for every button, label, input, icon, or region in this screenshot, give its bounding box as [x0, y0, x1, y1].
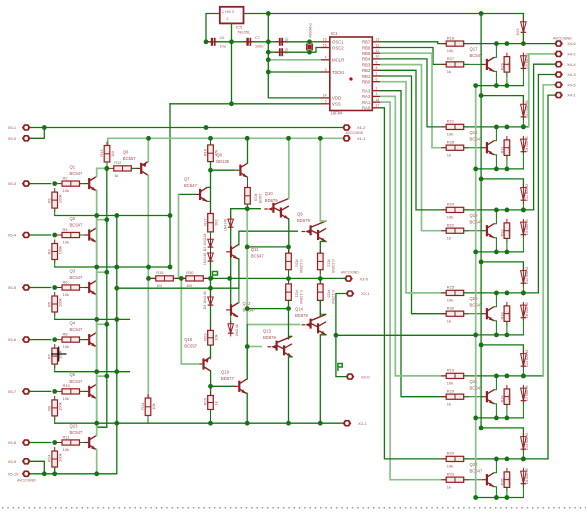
resistor R25 [441, 292, 469, 294]
connector X5-6 [22, 336, 31, 343]
svg-text:IC1: IC1 [331, 31, 338, 36]
svg-text:Q10: Q10 [265, 191, 274, 196]
wire R2 to Q1 base [80, 183, 85, 185]
svg-text:Q6: Q6 [123, 149, 129, 154]
pin 14 VDD of IC1 [321, 97, 330, 99]
pin 8 RB2 of IC1 [372, 69, 381, 71]
wire Q7 emitter [207, 200, 210, 202]
svg-text:4: 4 [325, 56, 327, 60]
wire OSC2 row [268, 51, 309, 53]
svg-text:X2-1: X2-1 [361, 291, 370, 296]
wire R24 to bus [54, 467, 56, 474]
transistor Q3 BC547 [88, 282, 90, 293]
junction R19 bottom / Q10 base row [245, 206, 250, 211]
wire rail cell Q22 [464, 458, 549, 460]
wire to Q13 base row [246, 325, 248, 347]
wire divider/reference row [148, 277, 344, 279]
svg-text:Q23: Q23 [70, 423, 79, 428]
wire X2 connectors tie [336, 294, 346, 377]
svg-text:BC557: BC557 [184, 344, 197, 349]
svg-text:D8 BAT43: D8 BAT43 [525, 468, 529, 484]
junction AVCC bus x=288.5 [286, 136, 291, 141]
junction X5-9 tie [42, 471, 47, 476]
pin 16 OSC1 of IC1 [321, 41, 330, 43]
transistor Q14 BD679 [302, 324, 306, 326]
wire RB6 to R27 [381, 48, 447, 65]
wire R11 to Q23 base [80, 442, 85, 444]
wire D14 to next rail [522, 450, 524, 459]
svg-text:R25: R25 [326, 290, 331, 298]
capacitor C7 100n [244, 41, 248, 43]
svg-text:2k2: 2k2 [214, 218, 219, 225]
resistor R22 [441, 230, 469, 232]
svg-text:1k: 1k [114, 173, 118, 178]
svg-text:R24: R24 [447, 202, 455, 207]
capacitor C2 22p [276, 51, 280, 53]
svg-text:X2-0: X2-0 [361, 374, 370, 379]
svg-text:R15: R15 [156, 270, 164, 275]
connector X5-1 [22, 124, 31, 131]
junction bus/resistor [505, 333, 510, 338]
junction GND bus / bus chain [114, 421, 119, 426]
pin 9 RB3 of IC1 [372, 64, 381, 66]
junction VIN / C6 [204, 39, 209, 44]
junction rail/diode [521, 208, 526, 213]
junction diode/next rail [521, 457, 526, 462]
wire row 247 [247, 246, 288, 248]
pin 6 RB0 of IC1 [372, 81, 381, 83]
junction GND bus / Q13 emitter [286, 421, 291, 426]
junction post row / chain B [479, 177, 484, 182]
resistor R16 [210, 141, 212, 166]
junction bus/chain [473, 83, 478, 88]
junction +5V rail / right cell chain [479, 11, 484, 16]
svg-text:1 +5V 3: 1 +5V 3 [222, 10, 234, 14]
junction resonator top [307, 39, 312, 44]
resistor R30 [181, 277, 208, 279]
junction X5-3 node [52, 181, 57, 186]
junction divider row / chain [208, 276, 213, 281]
wire RB0 fan-out to right driver [381, 82, 447, 293]
svg-text:D12 BAT43: D12 BAT43 [525, 267, 529, 284]
svg-text:RB7: RB7 [362, 40, 371, 45]
svg-text:BC557: BC557 [123, 156, 136, 161]
wire R23 to Q18 [210, 345, 212, 357]
pin 1 RA2 of IC1 [372, 95, 381, 97]
wire +5V top rail [244, 13, 524, 15]
wire R26 to Q16 base [464, 147, 483, 149]
svg-text:1k: 1k [447, 152, 451, 157]
wire Q6 emitter up to AVCC bus [147, 138, 149, 161]
wire X5-5 to R6 [31, 287, 51, 289]
pin 2 RA3 of IC1 [372, 90, 381, 92]
wire D4 to R23 [210, 306, 212, 330]
svg-text:Q21: Q21 [470, 379, 479, 384]
wire Q1 emitter down [95, 191, 97, 216]
svg-text:RB1: RB1 [362, 74, 371, 79]
wire post row to D10 [481, 96, 523, 104]
resistor R11 [57, 442, 85, 444]
svg-text:AVCC/GND: AVCC/GND [553, 37, 572, 41]
wire D13 to next rail [522, 367, 524, 376]
svg-text:X5-5: X5-5 [8, 285, 17, 290]
svg-text:R14: R14 [140, 402, 145, 410]
junction row / Q10 rail [286, 276, 291, 281]
pin 4 MCLR of IC1 [321, 59, 330, 61]
junction rail/collector [494, 291, 499, 296]
svg-text:R17: R17 [202, 218, 207, 226]
svg-text:10k: 10k [447, 215, 453, 220]
diode D15 1N4148 [522, 19, 524, 36]
wire divider tap to Q18 base [181, 278, 198, 364]
wire R9 to bus [54, 416, 56, 423]
junction rail/resistor [505, 457, 510, 462]
transistor Q2 BC547 [88, 229, 90, 240]
junction bus/resistor [505, 167, 510, 172]
wire R27 to Q17 base [464, 63, 483, 65]
diode D5 BAT43 [522, 219, 524, 238]
wire bus cell X5-5 [55, 318, 130, 320]
resistor R19 [247, 184, 249, 209]
transistor Q22 BC547 [486, 474, 488, 485]
wire R35 to bus [506, 487, 508, 497]
resistor R27 [441, 63, 469, 65]
wire Q4 collector row [96, 324, 107, 332]
resistor R20 [288, 249, 290, 274]
svg-text:R2: R2 [63, 175, 69, 180]
resistor R18 [441, 43, 469, 45]
junction X5-4 node [52, 233, 57, 238]
wire Q17 collector up [494, 44, 496, 58]
connector X4-3 [554, 71, 563, 78]
wire D5 to Q11 [230, 228, 232, 246]
wire R22 to Q19 base [464, 230, 483, 232]
svg-text:X4-1: X4-1 [567, 93, 576, 98]
junction GND bus / Q19 emitter [245, 421, 250, 426]
wire Q3 collector row [96, 272, 107, 280]
svg-text:BC547: BC547 [70, 327, 83, 332]
svg-text:10k: 10k [63, 396, 69, 401]
wire Q23 emitter down [95, 450, 97, 475]
svg-text:RB3: RB3 [362, 62, 371, 67]
wire Q7 rail upper [207, 187, 210, 213]
junction collector chain top [104, 166, 109, 171]
svg-text:100k: 100k [507, 477, 511, 485]
wire Q21 collector up [494, 376, 496, 390]
wire AVCC light bus to X1-1 [108, 137, 342, 139]
svg-text:10k: 10k [63, 240, 69, 245]
svg-text:1k: 1k [447, 484, 451, 489]
capacitor C6 10u [208, 41, 212, 43]
wire R10 to Q5 base [80, 390, 85, 392]
wire R22 to row [319, 270, 321, 284]
svg-text:X5-1: X5-1 [8, 125, 17, 130]
junction bus/chain [473, 416, 478, 421]
wire Q12 to D6 [230, 316, 232, 323]
wire X5-0 to X5-1 tie [31, 128, 45, 139]
junction bus/chain [473, 333, 478, 338]
svg-text:X4-3: X4-3 [567, 72, 576, 77]
wire Q2 collector row [96, 220, 107, 228]
svg-text:78L05L: 78L05L [237, 30, 251, 35]
junction VIN vertical / X1-2 row [204, 125, 209, 130]
svg-text:10k: 10k [151, 403, 156, 409]
wire resonator to OSC1 pin [310, 41, 322, 43]
resistor R26 [441, 147, 469, 149]
wire X5-4 to R4 [31, 234, 51, 236]
junction bus/emitter [494, 83, 499, 88]
voltage regulator IC5 78L05 [220, 7, 244, 24]
wire link rail to X4-4 [534, 64, 555, 210]
junction Q6 vertical / divider row [146, 276, 151, 281]
wire MCLR net [268, 59, 321, 61]
svg-text:R30: R30 [186, 270, 194, 275]
resistor R33 100k [506, 302, 508, 326]
pin 3 T0CKI of IC1 [321, 71, 330, 73]
svg-text:BC547: BC547 [70, 171, 83, 176]
junction bus/chain [114, 317, 119, 322]
wire post row to D14 [481, 428, 523, 436]
wire link rail to X4-3 [538, 75, 554, 293]
svg-text:MCLR: MCLR [332, 58, 344, 63]
wire R19 to row [247, 204, 249, 209]
diode D10 BAT43 [522, 101, 524, 120]
wire bus cell X5-6 [55, 371, 130, 373]
junction bus/emitter [494, 416, 499, 421]
junction post row / chain B [479, 426, 484, 431]
junction post row / chain B [479, 260, 484, 265]
wire bus cell Q20 [476, 334, 524, 336]
wire GND vertical to left cell buses [169, 104, 171, 267]
svg-text:Q4: Q4 [70, 320, 76, 325]
svg-text:1M: 1M [110, 151, 115, 157]
wire R32 to bus [506, 238, 508, 252]
wire Q10 rail up to AVCC bus [288, 138, 290, 198]
junction R24 bottom [52, 471, 57, 476]
svg-text:10: 10 [376, 55, 380, 59]
svg-text:16F84: 16F84 [331, 111, 344, 116]
svg-text:6: 6 [376, 78, 378, 82]
wire link rail to X4-1 [548, 95, 554, 459]
wire RB1 fan-out to right driver [381, 76, 447, 314]
transistor Q19 BC547 [486, 225, 488, 236]
svg-text:RB4: RB4 [362, 57, 371, 62]
pin 13 RB7 of IC1 [372, 41, 381, 43]
junction GND vertical / bus X5-3 cell [168, 213, 173, 218]
svg-text:RB6: RB6 [362, 45, 371, 50]
svg-text:R24: R24 [47, 454, 52, 462]
transistor Q16 BC547 [486, 142, 488, 153]
svg-text:BD677: BD677 [221, 376, 234, 381]
junction X5-7 node [52, 389, 57, 394]
junction row / Q9 rail [318, 276, 323, 281]
resistor R21 [288, 280, 290, 305]
junction bus/resistor [505, 495, 510, 500]
svg-text:100k: 100k [58, 453, 63, 462]
wire Q9 rail up to AVCC bus [320, 138, 326, 221]
svg-text:RA0: RA0 [362, 106, 371, 111]
diode D6 BAT43 [522, 302, 524, 321]
wire Q9 emitter down [320, 242, 326, 254]
diode D11 BAT43 [522, 184, 524, 203]
svg-text:4000kHz: 4000kHz [309, 23, 313, 38]
resistor R1 [54, 188, 56, 212]
wire drive row 288 [117, 287, 239, 289]
junction rail/resistor [505, 291, 510, 296]
wire bus cell Q21 [476, 417, 524, 419]
resistor R23 [210, 326, 212, 349]
wire RA3 fan-out to right driver [381, 91, 447, 397]
wire Q7 base row [179, 193, 196, 195]
resistor R7 [54, 344, 56, 368]
connector X1-1 [342, 135, 351, 142]
svg-text:D6 BAT43: D6 BAT43 [525, 302, 529, 318]
junction bus/emitter [494, 250, 499, 255]
connector X4-1 [554, 92, 563, 99]
svg-text:T0CKI: T0CKI [332, 70, 344, 75]
svg-text:RA2: RA2 [362, 94, 371, 99]
wire D15 cathode to output rail [522, 34, 524, 44]
svg-text:10k: 10k [63, 292, 69, 297]
svg-text:11: 11 [376, 49, 380, 53]
junction divider tap [179, 276, 184, 281]
junction bus/chain [473, 495, 478, 500]
svg-text:R11: R11 [63, 434, 71, 439]
wire R33 to bus [506, 321, 508, 335]
svg-text:R25: R25 [447, 285, 455, 290]
svg-text:Q11: Q11 [251, 247, 259, 252]
wire light vertical to Q14 base [247, 209, 299, 325]
svg-text:1k: 1k [447, 235, 451, 240]
wire bus cell X5-4 [55, 266, 170, 268]
svg-text:D14 BAT43: D14 BAT43 [525, 433, 529, 450]
wire D7 to bus [522, 402, 524, 418]
connector X5-3 [22, 180, 31, 187]
resistor R17 [210, 210, 212, 236]
wire R6 to Q3 base [80, 287, 85, 289]
junction rail/collector [494, 125, 499, 130]
svg-text:R32: R32 [501, 229, 505, 236]
svg-text:RB2: RB2 [362, 68, 371, 73]
junction X5-0 tie [42, 125, 47, 130]
wire Q20 emitter down [494, 321, 496, 335]
wire R5 to bus [54, 312, 56, 319]
wire X5-9 tie down [31, 461, 45, 474]
wire VSS/GND row [170, 103, 321, 105]
resistor R31 100k [506, 136, 508, 160]
svg-text:Q14: Q14 [295, 307, 304, 312]
svg-text:10k: 10k [63, 188, 69, 193]
svg-text:BC547: BC547 [70, 430, 83, 435]
junction rail/resistor [505, 374, 510, 379]
junction rail/collector [494, 208, 499, 213]
svg-text:1M: 1M [156, 283, 162, 288]
svg-text:R1: R1 [47, 197, 52, 203]
junction X2 tie / cell4 bus [334, 333, 339, 338]
svg-text:0.125W: 0.125W [299, 290, 304, 304]
wire Q4 emitter down [95, 347, 97, 372]
svg-text:Q22: Q22 [470, 462, 479, 467]
wire row to D5 [230, 209, 232, 219]
diode D8 BAT43 [522, 468, 524, 487]
svg-text:1: 1 [376, 92, 378, 96]
svg-text:R4: R4 [63, 227, 69, 232]
svg-text:OSC2: OSC2 [332, 45, 344, 50]
transistor Q19 BD677 [238, 381, 240, 392]
junction X5-8 node [52, 440, 57, 445]
svg-text:15: 15 [323, 43, 327, 47]
svg-text:14: 14 [323, 94, 327, 98]
junction diode/next rail [521, 374, 526, 379]
wire D11 to next rail [522, 201, 524, 210]
net flag E [338, 364, 342, 372]
wire R23 to Q22 base [464, 479, 483, 481]
junction rail/collector [494, 457, 499, 462]
wire Q19 emitter to bus [245, 393, 248, 423]
resistor R5 [54, 292, 56, 316]
pin 10 RB4 of IC1 [372, 58, 381, 60]
wire resonator to OSC2 pin [310, 48, 322, 53]
svg-text:RB5: RB5 [362, 51, 371, 56]
wire main GND bus [55, 422, 343, 424]
svg-text:R20: R20 [295, 259, 300, 267]
wire Q11 emitter down [237, 259, 240, 288]
svg-text:R28: R28 [501, 63, 505, 70]
wire net X5-1 to X1-2 [31, 127, 343, 129]
wire D12 to next rail [522, 284, 524, 293]
svg-text:Q13: Q13 [263, 329, 272, 334]
junction AVCC bus x=247.2 [245, 136, 250, 141]
svg-text:AVCC/GND: AVCC/GND [341, 271, 359, 275]
diode D12 BAT43 [522, 267, 524, 286]
svg-text:C6: C6 [220, 36, 225, 40]
junction rail/diode [521, 457, 526, 462]
svg-text:8: 8 [376, 66, 378, 70]
wire Q8 collector to AVCC bus [247, 138, 249, 163]
connector X5-5 [22, 284, 31, 291]
svg-text:100k: 100k [58, 246, 63, 255]
svg-text:10k: 10k [63, 344, 69, 349]
junction diode chain crossing [227, 276, 232, 281]
resistor R24 [441, 209, 469, 211]
svg-text:13: 13 [376, 38, 380, 42]
junction Q8 base drive [208, 168, 213, 173]
wire left bus chain vertical [116, 216, 118, 424]
pin 17 RA0 of IC1 [372, 107, 381, 109]
svg-text:BD679: BD679 [263, 335, 276, 340]
net flag P [213, 272, 218, 280]
wire R30 to Q20 base [464, 313, 483, 315]
svg-text:R19: R19 [447, 368, 455, 373]
wire Q19 collector up [494, 210, 496, 224]
junction diode/next rail [521, 124, 526, 129]
resistor R26 [210, 392, 212, 414]
svg-text:R22: R22 [447, 223, 455, 228]
junction GND bus / Q14 emitter [318, 421, 323, 426]
svg-text:X5-10: X5-10 [8, 471, 19, 476]
resistor R10 [57, 390, 85, 392]
wire cell4 bus extension [336, 334, 476, 336]
wire Q12 collector up [237, 288, 240, 303]
wire R1 to bus [54, 208, 56, 215]
wire D5 to bus [522, 236, 524, 252]
svg-text:1N4148: 1N4148 [203, 253, 207, 265]
junction GND vertical / bus X5-4 cell [168, 265, 173, 270]
svg-text:10k: 10k [63, 447, 69, 452]
svg-text:D15: D15 [516, 29, 520, 35]
wire to Q10 base [231, 208, 261, 210]
junction drive row / chain [208, 286, 213, 291]
